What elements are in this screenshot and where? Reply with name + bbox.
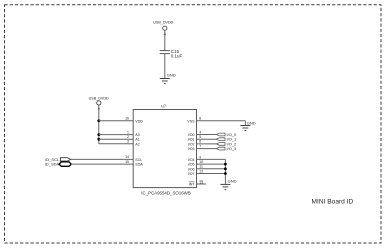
- wire power bus vertical: [98, 105, 100, 144]
- svg-text:GND: GND: [167, 72, 176, 77]
- svg-text:MINI Board ID: MINI Board ID: [312, 199, 354, 206]
- svg-text:I/O3: I/O3: [188, 147, 195, 151]
- junction at A0: [97, 133, 100, 136]
- wire to A2 pin 3: [99, 143, 133, 145]
- wire C15 to ground: [164, 54, 166, 79]
- pin name INT: [189, 182, 196, 186]
- IC U? PCA9554D body: [133, 110, 196, 188]
- wire I/O1 to tag: [197, 138, 217, 140]
- wire power to C15: [164, 30, 166, 50]
- svg-text:VSS: VSS: [187, 119, 195, 123]
- svg-text:I/O7: I/O7: [188, 172, 195, 176]
- capacitor C15 0.1uF: [160, 49, 183, 58]
- junction at VDD: [97, 119, 100, 122]
- svg-text:11: 11: [199, 165, 203, 169]
- svg-text:4: 4: [199, 130, 201, 134]
- ground GND (bottom): [220, 178, 236, 189]
- junction at A1: [97, 138, 100, 141]
- svg-text:6: 6: [199, 140, 201, 144]
- svg-text:SDA: SDA: [135, 163, 143, 167]
- svg-text:16: 16: [125, 117, 129, 121]
- svg-text:SCL: SCL: [135, 158, 142, 162]
- svg-text:I/O_3: I/O_3: [227, 146, 238, 151]
- svg-text:5: 5: [199, 135, 201, 139]
- svg-text:0.1uF: 0.1uF: [171, 54, 183, 59]
- svg-text:ID_SDA: ID_SDA: [45, 162, 60, 167]
- wire I/O0 to tag: [197, 134, 217, 136]
- svg-text:VDD: VDD: [135, 119, 143, 123]
- svg-text:15: 15: [125, 160, 129, 164]
- svg-text:I/O4: I/O4: [188, 158, 195, 162]
- svg-text:IC_PCA9554D_SO16WB: IC_PCA9554D_SO16WB: [141, 191, 191, 196]
- wire INT pin 13 stub: [197, 183, 207, 185]
- wire I/O2 to tag: [197, 143, 217, 145]
- node I/O_1: [216, 137, 237, 142]
- svg-text:GND: GND: [228, 178, 237, 183]
- svg-text:3: 3: [127, 140, 129, 144]
- svg-text:14: 14: [125, 155, 129, 159]
- svg-text:GND: GND: [247, 120, 256, 125]
- svg-text:A2: A2: [135, 142, 139, 146]
- wire I/O6 to bus: [197, 168, 226, 170]
- svg-text:7: 7: [199, 144, 201, 148]
- svg-text:9: 9: [199, 155, 201, 159]
- wire I/O4 to bus: [197, 158, 226, 160]
- svg-text:10: 10: [199, 160, 203, 164]
- svg-text:USB_DVDD: USB_DVDD: [153, 21, 173, 25]
- ground GND (right of VSS): [240, 120, 255, 130]
- wire I/O3 to tag: [197, 148, 217, 150]
- wire I/O5 to bus: [197, 163, 226, 165]
- wire to A1 pin 2: [99, 138, 133, 140]
- power USB_DVDD (top): [153, 21, 173, 35]
- svg-text:8: 8: [199, 117, 201, 121]
- wire bus vertical to GND: [224, 159, 226, 184]
- node I/O_2: [216, 141, 237, 146]
- svg-text:I/O6: I/O6: [188, 167, 195, 171]
- node I/O_3: [216, 146, 237, 151]
- junction at I/O5: [224, 163, 227, 166]
- svg-text:2: 2: [127, 135, 129, 139]
- power USB_DVDD (left): [89, 96, 109, 109]
- svg-text:I/O0: I/O0: [188, 133, 195, 137]
- svg-text:I/O2: I/O2: [188, 142, 195, 146]
- junction at I/O6: [224, 167, 227, 170]
- wire ID_SDA to SDA pin 15: [71, 163, 133, 165]
- svg-text:I/O5: I/O5: [188, 163, 195, 167]
- svg-text:12: 12: [199, 169, 203, 173]
- svg-text:I/O1: I/O1: [188, 138, 195, 142]
- wire VSS pin 8 to GND: [197, 121, 246, 126]
- pin number 13: [199, 180, 203, 184]
- wire ID_SCL to SCL pin 14: [71, 158, 134, 160]
- svg-text:A0: A0: [135, 133, 139, 137]
- wire to VDD pin 16: [99, 120, 133, 122]
- svg-text:USB_DVDD: USB_DVDD: [89, 96, 109, 100]
- svg-text:A1: A1: [135, 138, 139, 142]
- node I/O_0: [216, 132, 237, 137]
- svg-text:1: 1: [127, 130, 129, 134]
- svg-text:u?: u?: [161, 103, 166, 108]
- wire I/O7 to bus: [197, 173, 226, 175]
- svg-text:INT: INT: [189, 182, 196, 186]
- ground GND (top): [160, 72, 176, 83]
- node ID_SDA: [45, 162, 72, 167]
- node ID_SCL: [45, 157, 70, 162]
- junction at I/O7: [224, 172, 227, 175]
- wire to A0 pin 1: [99, 134, 133, 136]
